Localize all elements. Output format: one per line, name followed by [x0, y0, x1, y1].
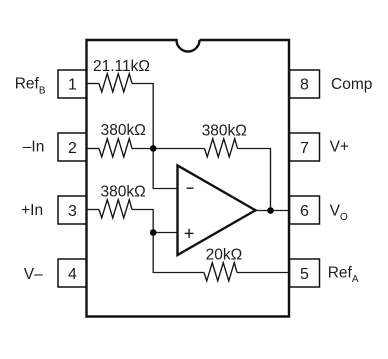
svg-text:380kΩ: 380kΩ: [101, 184, 146, 201]
svg-text:2: 2: [68, 140, 77, 157]
svg-text:3: 3: [68, 203, 77, 220]
svg-text:1: 1: [68, 77, 77, 94]
svg-text:8: 8: [300, 77, 309, 94]
svg-text:V–: V–: [24, 266, 43, 283]
svg-text:VO: VO: [330, 203, 348, 223]
svg-text:20kΩ: 20kΩ: [206, 246, 243, 263]
svg-text:Comp: Comp: [331, 76, 372, 93]
svg-text:RefA: RefA: [328, 264, 359, 285]
svg-text:380kΩ: 380kΩ: [202, 123, 247, 140]
svg-text:V+: V+: [330, 139, 349, 156]
svg-text:RefB: RefB: [15, 76, 46, 97]
svg-text:6: 6: [300, 203, 309, 220]
svg-text:–In: –In: [23, 138, 45, 155]
svg-text:7: 7: [300, 140, 309, 157]
svg-text:4: 4: [68, 266, 77, 283]
svg-text:380kΩ: 380kΩ: [101, 122, 146, 139]
svg-text:5: 5: [300, 266, 309, 283]
svg-text:+In: +In: [21, 202, 43, 219]
svg-text:21.11kΩ: 21.11kΩ: [93, 58, 150, 75]
